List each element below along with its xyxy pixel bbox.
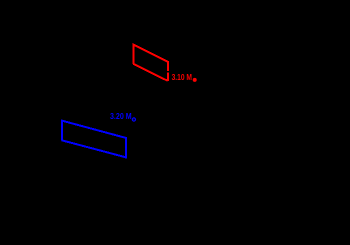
- red label sun symbol: [193, 78, 197, 82]
- red instability region box (3.10 Msun model): left, top and upper right edges: [133, 45, 168, 71]
- red box lower right edge segment: [167, 73, 169, 81]
- svg-text:3.10 M: 3.10 M: [172, 72, 192, 82]
- blue box bottom edge: [62, 140, 126, 157]
- blue instability region box (3.20 Msun model): [62, 121, 126, 159]
- svg-text:3.20 M: 3.20 M: [110, 112, 132, 121]
- blue label sun symbol: [132, 118, 135, 121]
- red box bottom edge: [133, 64, 168, 81]
